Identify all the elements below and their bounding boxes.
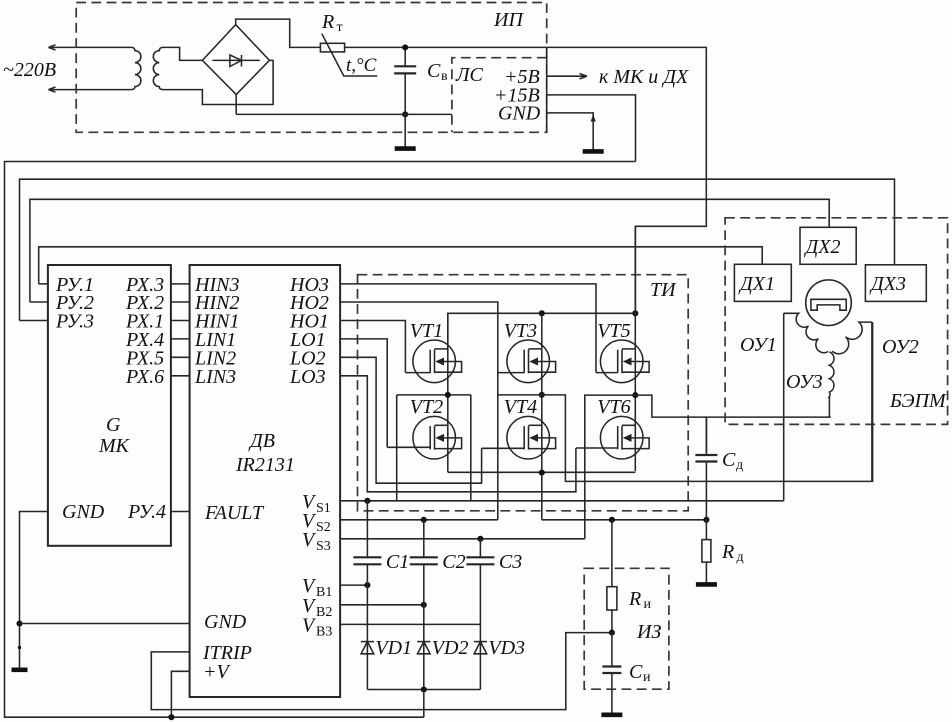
svg-text:C: C: [629, 661, 643, 683]
wire VB3 row: [340, 623, 480, 625]
svg-text:S1: S1: [316, 501, 331, 516]
wire LO2 to VT4 gate: [340, 357, 482, 483]
pin GND (MK): [20, 501, 105, 668]
svg-text:LIN3: LIN3: [194, 366, 236, 388]
svg-text:B1: B1: [316, 585, 332, 600]
winding OU2: [832, 322, 919, 358]
resistor Ri: [607, 520, 652, 633]
capacitor C2: [410, 520, 466, 690]
node ~220V input with arrows: [3, 45, 131, 92]
svg-text:в: в: [441, 69, 448, 84]
power block IP dashed box: [76, 3, 547, 133]
svg-text:R: R: [628, 588, 641, 610]
hall sensor DX1: [734, 264, 791, 301]
transistor VT1: [405, 320, 461, 383]
ground (LS GND): [583, 149, 604, 154]
wire Cd tap on phase 3: [705, 417, 707, 453]
wire VS3 row: [340, 538, 585, 540]
svg-text:C2: C2: [442, 551, 465, 573]
svg-text:ДВ: ДВ: [248, 430, 275, 452]
svg-text:и: и: [643, 670, 651, 685]
wire VS2 row (COM bus): [340, 519, 706, 521]
pin ITRIP: [151, 633, 611, 710]
wire PU.1 stub: [39, 283, 48, 285]
winding OU3: [786, 352, 834, 417]
wire LO3 to VT6 gate: [340, 376, 576, 492]
svg-text:B2: B2: [316, 605, 332, 620]
pin PY.4 / FAULT link: [127, 501, 190, 523]
hall sensor DX2: [800, 227, 856, 264]
wire leg 3 vertical: [634, 226, 636, 471]
svg-text:VD2: VD2: [432, 637, 469, 659]
ground (Rd): [696, 582, 717, 587]
wire +15V rail wrap-around: [5, 162, 636, 718]
wire hall bus to DX2: [30, 199, 829, 302]
node +5V output, to MK and DX: [504, 66, 689, 88]
svg-text:ЛС: ЛС: [455, 64, 484, 86]
driver DV IR2131 box: [190, 265, 341, 697]
svg-text:РУ.3: РУ.3: [55, 311, 94, 333]
hall sensor DX3: [865, 265, 926, 302]
svg-text:VT3: VT3: [504, 320, 537, 342]
svg-text:VT1: VT1: [410, 320, 443, 342]
wire HO2 to VT3 gate and VS2 riser: [340, 302, 498, 520]
ground (CB): [404, 114, 406, 147]
transistor VT4: [482, 396, 556, 459]
svg-text:+V: +V: [203, 661, 231, 683]
capacitor C1: [353, 501, 409, 690]
svg-text:~220B: ~220B: [3, 59, 56, 81]
microcontroller G MK box: [48, 265, 171, 546]
inverter TI dashed box: [358, 275, 689, 511]
svg-text:ОУ3: ОУ3: [786, 371, 823, 393]
current sense IZ dashed box: [584, 568, 669, 689]
wire HO3 to VT5 gate: [340, 284, 596, 373]
winding OU1: [740, 313, 828, 356]
svg-text:G: G: [106, 414, 121, 436]
capacitor CB (smoothing): [394, 47, 448, 114]
svg-text:S3: S3: [316, 539, 331, 554]
svg-text:ДХ2: ДХ2: [804, 236, 841, 258]
svg-text:ОУ1: ОУ1: [740, 334, 777, 356]
svg-text:LO3: LO3: [289, 366, 326, 388]
ground (Ci): [601, 712, 622, 717]
wire OU1 terminal: [783, 313, 785, 501]
svg-text:РУ.4: РУ.4: [127, 501, 166, 523]
capacitor Ci: [602, 633, 651, 713]
svg-text:GND: GND: [498, 103, 541, 125]
node phase 1: [397, 394, 471, 396]
wire bridge DC+ to thermistor: [236, 19, 321, 47]
svg-text:FAULT: FAULT: [204, 502, 265, 524]
wire HO1 to VT1 gate: [340, 321, 405, 373]
wire VD anode bus: [367, 689, 480, 691]
stabilizer LS dashed box: [452, 47, 547, 132]
transformer T1 primary winding: [131, 47, 141, 89]
diode VD2: [417, 637, 468, 659]
wire secondary to bridge AC terminals: [163, 47, 273, 104]
capacitor C3: [466, 539, 522, 690]
wire VB2 row: [340, 604, 424, 606]
pin +V: [171, 661, 231, 717]
svg-text:GND: GND: [62, 501, 105, 523]
wire phase 2 to VS2 riser: [498, 394, 542, 396]
diode VD3: [474, 637, 525, 659]
pin GND (DV): [20, 611, 247, 633]
svg-text:и: и: [644, 597, 652, 612]
wire VD bus to +V rail: [423, 690, 425, 718]
svg-text:C3: C3: [499, 551, 522, 573]
wire VS1 row to OU1: [340, 500, 784, 502]
svg-text:VT4: VT4: [504, 396, 537, 418]
svg-text:R: R: [321, 11, 334, 33]
wire phase 1 drops to VS1 line: [397, 395, 471, 501]
svg-text:VT6: VT6: [597, 396, 630, 418]
svg-text:C: C: [722, 449, 736, 471]
wire hall bus to DX1: [39, 247, 763, 284]
svg-text:S2: S2: [316, 520, 331, 535]
wire bridge DC- to bottom bus: [235, 95, 237, 115]
svg-text:VT5: VT5: [597, 320, 630, 342]
wire leg 2 vertical: [541, 313, 543, 520]
svg-text:РХ.6: РХ.6: [125, 366, 164, 388]
capacitor Cd: [695, 417, 743, 520]
thermistor RT: [320, 11, 377, 76]
transistor VT5: [596, 320, 649, 383]
wire inverter top bus: [448, 313, 636, 349]
wire phase 2 to OU2: [542, 322, 873, 481]
wire PU.3 stub: [20, 320, 48, 322]
svg-text:д: д: [737, 550, 744, 565]
svg-text:ОУ2: ОУ2: [882, 336, 919, 358]
svg-text:ДХ3: ДХ3: [869, 273, 906, 295]
wire source bus VT2-VT4-VT6: [448, 471, 636, 473]
svg-text:ТИ: ТИ: [650, 279, 677, 301]
wire VB1 row: [340, 584, 367, 586]
wire LO1 to VT2 gate: [340, 339, 387, 447]
wire rectified V+ rail to inverter: [345, 47, 707, 313]
svg-text:к МК и ДХ: к МК и ДХ: [599, 66, 689, 88]
diode VD1: [361, 637, 412, 659]
transistor VT6: [576, 396, 649, 459]
resistor Rd: [702, 520, 744, 583]
wire PU.2 stub: [30, 301, 48, 303]
transistor VT3: [498, 320, 556, 383]
svg-text:т: т: [337, 20, 343, 35]
svg-text:ИП: ИП: [493, 9, 524, 31]
node phase 2: [539, 392, 545, 398]
svg-text:д: д: [736, 458, 743, 473]
svg-text:IR2131: IR2131: [235, 454, 295, 476]
svg-text:C: C: [427, 60, 441, 82]
wire phase 3 to OU3: [635, 395, 831, 417]
transistor VT2: [387, 396, 461, 459]
wire OU2 terminal: [871, 322, 873, 481]
svg-text:B3: B3: [316, 624, 332, 639]
svg-text:БЭПМ: БЭПМ: [889, 390, 947, 412]
node +15V output: [494, 85, 636, 162]
motor rotor symbol: [806, 280, 852, 326]
wire bottom DC bus: [236, 113, 452, 115]
svg-text:МК: МК: [98, 435, 131, 457]
svg-text:ИЗ: ИЗ: [636, 621, 661, 643]
motor unit BEPM dashed box: [725, 218, 948, 425]
node phase 3: [632, 392, 638, 398]
svg-text:VD3: VD3: [488, 637, 525, 659]
svg-text:GND: GND: [204, 611, 247, 633]
svg-text:t,°C: t,°C: [346, 55, 377, 76]
svg-text:R: R: [721, 541, 734, 563]
wire leg 1 vertical: [447, 313, 449, 472]
svg-text:VT2: VT2: [410, 396, 443, 418]
svg-text:VD1: VD1: [375, 637, 412, 659]
wire phase 3 to VS3 chain: [585, 395, 636, 539]
transformer T1 secondary winding: [153, 47, 163, 89]
wire hall bus to DX3: [20, 179, 895, 320]
ground (MK): [12, 667, 28, 672]
bridge rectifier VD: [202, 25, 269, 95]
svg-text:ДХ1: ДХ1: [738, 273, 775, 295]
node GND output: [498, 103, 596, 151]
svg-text:C1: C1: [386, 551, 409, 573]
